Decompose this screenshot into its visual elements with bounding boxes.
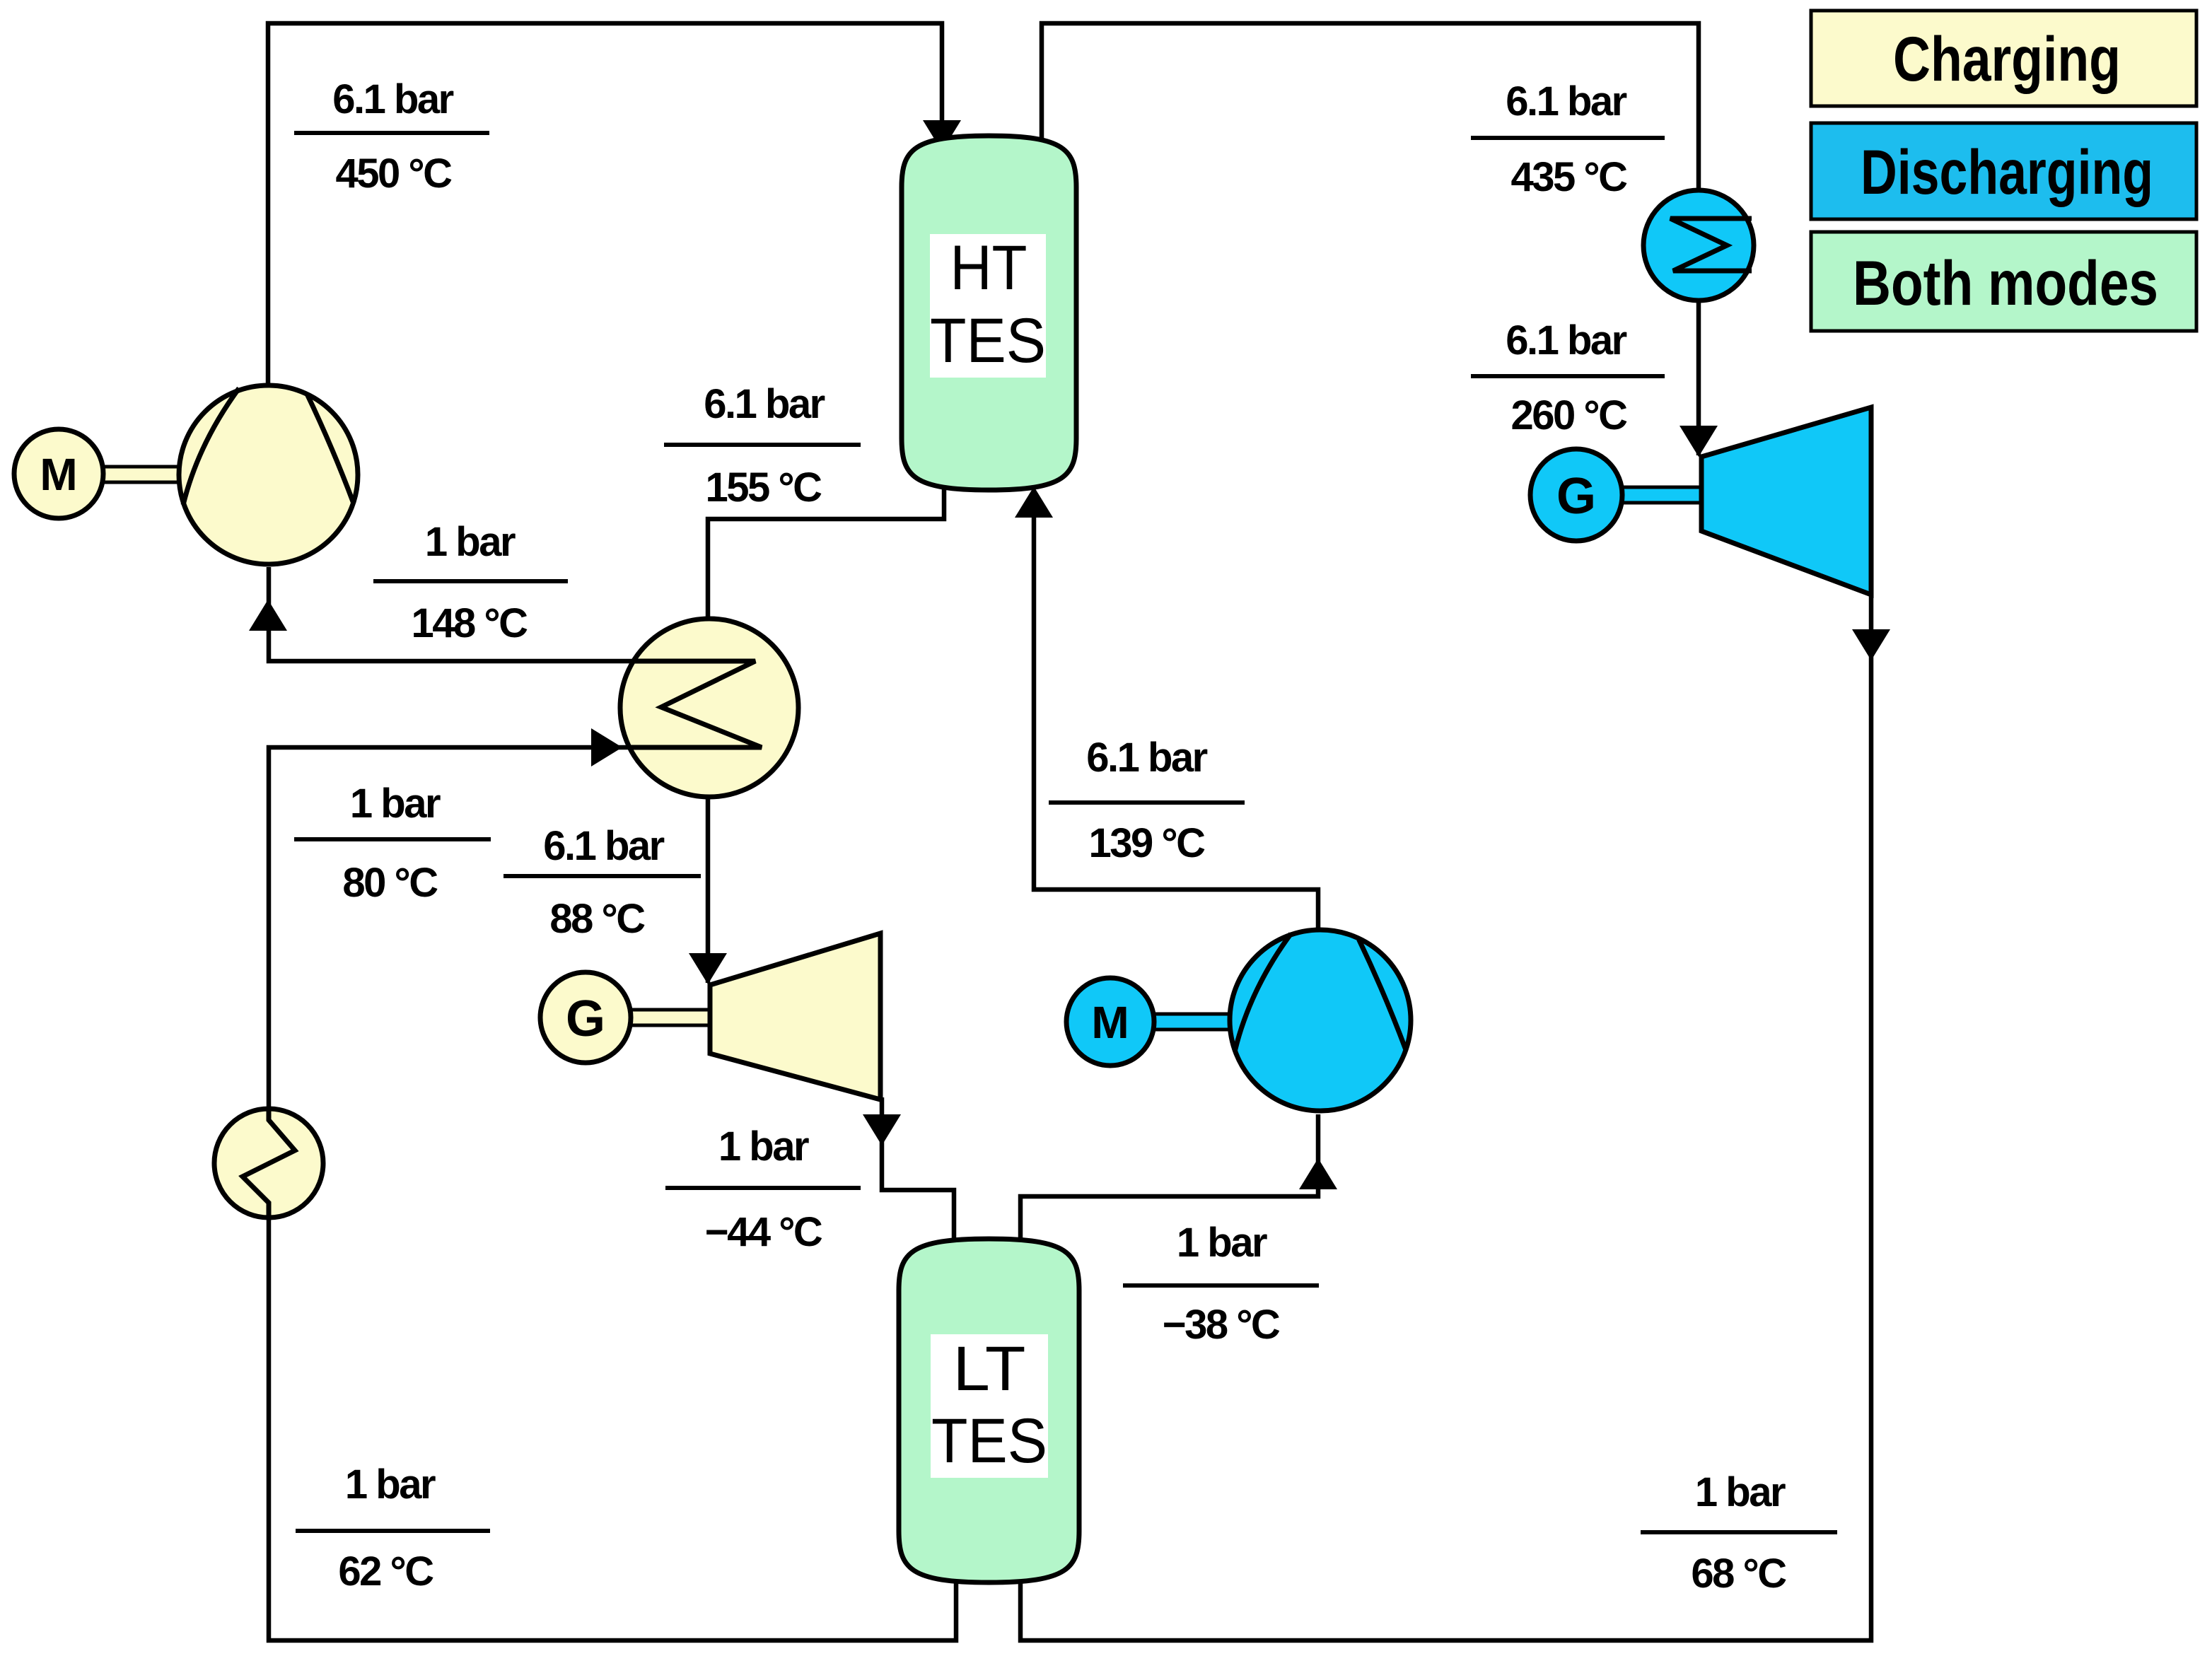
label 6.1 bar / 155 C (664, 381, 861, 511)
wire HX1 left outlet to compressor inlet (269, 567, 672, 661)
label 6.1 bar / 88 C (503, 823, 701, 942)
arrow into HX1 left inlet (591, 728, 622, 766)
svg-text:1 bar: 1 bar (350, 781, 441, 827)
svg-text:M: M (1091, 997, 1129, 1048)
svg-text:−38 °C: −38 °C (1163, 1302, 1280, 1348)
wire HX3 bottom to turbine T2 inlet (1696, 291, 1701, 455)
svg-text:6.1 bar: 6.1 bar (704, 381, 825, 427)
label 6.1 bar / 260 C (1471, 317, 1665, 438)
svg-text:260 °C: 260 °C (1511, 392, 1628, 438)
svg-text:LT: LT (953, 1333, 1026, 1404)
svg-text:155 °C: 155 °C (706, 465, 822, 511)
turbine T1 (710, 933, 880, 1100)
compressor C1 (179, 385, 358, 564)
svg-text:80 °C: 80 °C (342, 860, 438, 906)
svg-text:1 bar: 1 bar (345, 1462, 436, 1508)
svg-text:1 bar: 1 bar (718, 1124, 809, 1170)
svg-text:TES: TES (931, 1405, 1047, 1476)
wire LT TES top right to compressor C2 inlet (1020, 1114, 1318, 1280)
label 6.1 bar / 450 C (294, 76, 489, 197)
arrow into HT TES top (923, 120, 961, 151)
heat exchanger HX2 (cooler) (214, 1109, 323, 1218)
svg-text:Both modes: Both modes (1853, 247, 2158, 318)
heat exchanger HX3 (discharge heater) (1643, 190, 1754, 301)
label 6.1 bar / 139 C (1049, 735, 1245, 866)
svg-text:6.1 bar: 6.1 bar (1506, 78, 1626, 124)
svg-text:139 °C: 139 °C (1089, 820, 1206, 866)
arrow on turbine T1 outlet (863, 1114, 901, 1145)
wire turbine T2 outlet to LT TES bottom right (1020, 593, 1871, 1640)
svg-text:1 bar: 1 bar (1695, 1469, 1786, 1515)
svg-text:450 °C: 450 °C (336, 151, 453, 197)
svg-text:6.1 bar: 6.1 bar (1506, 317, 1626, 363)
label 1 bar / 62 C (296, 1462, 490, 1594)
svg-text:HT: HT (950, 232, 1028, 303)
turbine T2 (1701, 407, 1871, 595)
label 1 bar / 148 C (373, 519, 568, 646)
wire HT TES bottom to recuperator HX1 top (708, 460, 944, 629)
label box LT TES (931, 1334, 1048, 1478)
arrow into compressor C2 inlet (1299, 1158, 1337, 1189)
svg-text:6.1 bar: 6.1 bar (1086, 735, 1207, 781)
legend box Discharging (1811, 123, 2196, 219)
wire HX1 bottom to turbine T1 inlet (706, 788, 711, 983)
wire compressor C2 outlet to HT TES bottom right (1034, 495, 1318, 933)
svg-text:M: M (40, 449, 77, 500)
svg-text:62 °C: 62 °C (338, 1549, 433, 1594)
svg-text:6.1 bar: 6.1 bar (332, 76, 453, 122)
label box HT TES (930, 234, 1046, 378)
label 1 bar / -38 C (1123, 1220, 1319, 1348)
svg-text:G: G (566, 991, 605, 1047)
wire turbine T1 outlet to LT TES top left (882, 1097, 954, 1280)
label 1 bar / 80 C (294, 781, 491, 906)
motor M2 (1066, 978, 1154, 1066)
shaft motor M2 to compressor C2 (1151, 1014, 1233, 1030)
svg-text:Discharging: Discharging (1861, 136, 2153, 207)
motor M1 (14, 429, 103, 518)
shaft generator G2 to turbine T2 (1619, 487, 1703, 503)
generator G1 (540, 972, 631, 1063)
vessel LT TES (899, 1239, 1079, 1582)
svg-text:148 °C: 148 °C (412, 600, 528, 646)
compressor C2 (1230, 930, 1411, 1111)
arrow into HT TES bottom right (1015, 486, 1053, 518)
arrow into compressor C1 inlet (249, 600, 287, 631)
svg-text:Charging: Charging (1893, 23, 2121, 94)
shaft motor M1 to compressor C1 (99, 467, 184, 482)
vessel HT TES (902, 136, 1076, 490)
wire LT TES bottom left to HX2 to HX1 left inlet (269, 747, 956, 1640)
svg-text:6.1 bar: 6.1 bar (543, 823, 664, 869)
svg-text:−44 °C: −44 °C (705, 1209, 822, 1255)
svg-text:1 bar: 1 bar (1177, 1220, 1267, 1266)
label 1 bar / 68 C (1641, 1469, 1837, 1597)
label 1 bar / -44 C (665, 1124, 861, 1255)
wire compressor outlet to HT TES top (268, 23, 942, 387)
legend box Both modes (1811, 232, 2196, 331)
wire HT TES top right to HX3 (1042, 23, 1699, 202)
svg-text:TES: TES (930, 305, 1046, 375)
svg-text:435 °C: 435 °C (1511, 154, 1628, 200)
arrow on turbine T2 outlet (1852, 629, 1890, 660)
arrow into turbine T2 inlet (1680, 426, 1718, 457)
generator G2 (1530, 449, 1622, 541)
arrow into turbine T1 inlet (689, 953, 727, 984)
svg-text:68 °C: 68 °C (1691, 1551, 1786, 1597)
svg-text:1 bar: 1 bar (425, 519, 516, 565)
legend box Charging (1811, 11, 2196, 106)
shaft generator G1 to turbine T1 (628, 1010, 711, 1025)
svg-text:G: G (1556, 468, 1596, 525)
heat exchanger HX1 (recuperator) (620, 619, 798, 797)
label 6.1 bar / 435 C (1471, 78, 1665, 200)
svg-text:88 °C: 88 °C (549, 896, 645, 942)
